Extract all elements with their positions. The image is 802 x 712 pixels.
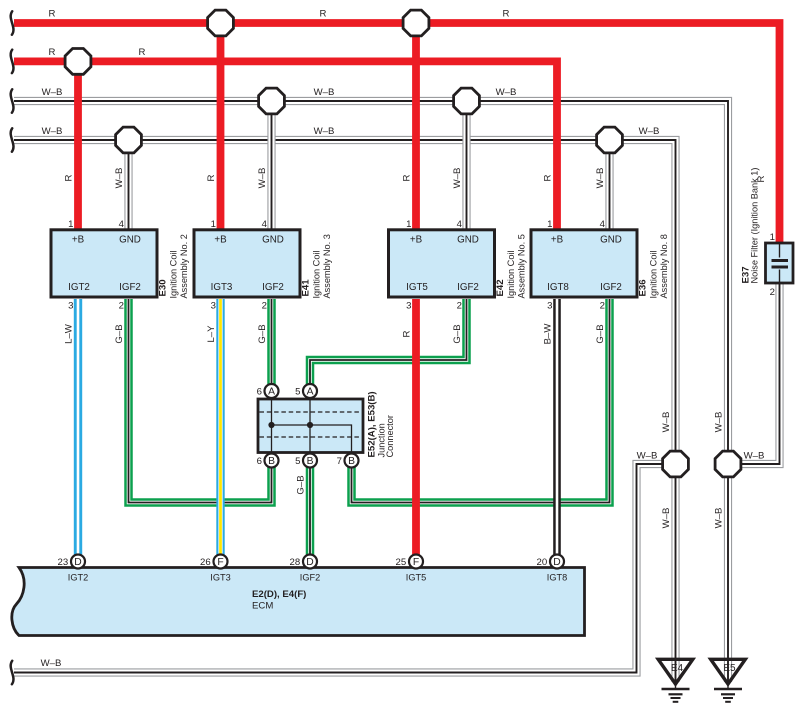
svg-text:IGF2: IGF2 (600, 282, 622, 293)
svg-text:W–B: W–B (637, 451, 658, 462)
svg-text:Assembly No. 2: Assembly No. 2 (179, 234, 189, 298)
svg-text:3: 3 (406, 301, 411, 312)
svg-text:E41: E41 (301, 279, 312, 297)
svg-text:Assembly No. 8: Assembly No. 8 (659, 234, 669, 298)
svg-text:1: 1 (770, 232, 775, 243)
svg-text:E2(D), E4(F): E2(D), E4(F) (252, 589, 306, 600)
svg-text:R: R (206, 174, 217, 181)
svg-text:GND: GND (262, 235, 284, 246)
svg-text:R: R (402, 174, 413, 181)
svg-text:2: 2 (770, 287, 775, 298)
svg-text:R: R (64, 174, 75, 181)
svg-text:W–B: W–B (714, 412, 725, 433)
svg-text:F: F (217, 557, 223, 568)
svg-text:W–B: W–B (714, 508, 725, 529)
svg-text:IGT2: IGT2 (68, 282, 90, 293)
svg-text:Assembly No. 3: Assembly No. 3 (322, 234, 332, 298)
svg-text:L–Y: L–Y (206, 325, 217, 343)
svg-text:B–W: B–W (543, 323, 554, 345)
svg-text:Ignition Coil: Ignition Coil (506, 250, 516, 298)
svg-text:W–B: W–B (42, 126, 63, 137)
svg-text:W–B: W–B (661, 508, 672, 529)
svg-text:2: 2 (262, 301, 267, 312)
svg-text:R: R (49, 9, 56, 20)
svg-text:A: A (307, 387, 314, 398)
svg-text:GND: GND (600, 235, 622, 246)
svg-text:B: B (307, 456, 314, 467)
svg-text:2: 2 (600, 301, 605, 312)
svg-text:E30: E30 (158, 279, 169, 296)
svg-text:IGT8: IGT8 (547, 573, 567, 583)
svg-text:+B: +B (72, 235, 85, 246)
svg-text:W–B: W–B (314, 87, 335, 98)
svg-text:B: B (348, 456, 355, 467)
svg-text:2: 2 (457, 301, 462, 312)
svg-text:GND: GND (457, 235, 479, 246)
svg-text:F: F (413, 557, 419, 568)
svg-text:IGF2: IGF2 (457, 282, 479, 293)
svg-text:W–B: W–B (452, 168, 463, 189)
svg-text:IGF2: IGF2 (300, 573, 320, 583)
svg-text:Assembly No. 5: Assembly No. 5 (516, 234, 526, 298)
svg-text:6: 6 (257, 456, 262, 467)
svg-text:W–B: W–B (41, 658, 62, 669)
svg-text:E5: E5 (723, 663, 736, 674)
svg-text:ECM: ECM (252, 601, 273, 612)
svg-text:W–B: W–B (744, 451, 765, 462)
svg-text:IGT2: IGT2 (68, 573, 88, 583)
svg-text:1: 1 (547, 219, 552, 230)
svg-text:G–B: G–B (114, 324, 125, 343)
svg-text:6: 6 (257, 386, 262, 397)
svg-text:Ignition Coil: Ignition Coil (648, 250, 658, 298)
svg-text:W–B: W–B (661, 412, 672, 433)
svg-text:R: R (139, 47, 146, 58)
svg-text:IGT3: IGT3 (210, 573, 230, 583)
svg-text:26: 26 (200, 557, 211, 568)
svg-text:1: 1 (211, 219, 216, 230)
svg-text:GND: GND (119, 235, 141, 246)
svg-text:G–B: G–B (296, 475, 307, 494)
svg-text:IGT5: IGT5 (406, 573, 426, 583)
svg-text:W–B: W–B (314, 126, 335, 137)
svg-text:D: D (553, 557, 560, 568)
svg-text:E36: E36 (638, 279, 649, 296)
svg-text:IGT5: IGT5 (406, 282, 428, 293)
svg-text:+B: +B (214, 235, 227, 246)
svg-text:1: 1 (68, 219, 73, 230)
svg-text:23: 23 (58, 557, 69, 568)
svg-text:IGF2: IGF2 (262, 282, 284, 293)
svg-text:IGT8: IGT8 (547, 282, 569, 293)
svg-text:Ignition Coil: Ignition Coil (311, 250, 321, 298)
svg-text:25: 25 (396, 557, 407, 568)
svg-text:A: A (268, 387, 275, 398)
svg-text:Connector: Connector (385, 415, 395, 457)
svg-text:4: 4 (119, 219, 125, 230)
svg-text:5: 5 (295, 456, 300, 467)
svg-text:20: 20 (537, 557, 548, 568)
svg-text:4: 4 (457, 219, 463, 230)
svg-text:E4: E4 (671, 663, 684, 674)
svg-text:5: 5 (295, 386, 300, 397)
svg-text:Ignition Coil: Ignition Coil (168, 250, 178, 298)
svg-text:W–B: W–B (639, 126, 660, 137)
svg-text:G–B: G–B (595, 324, 606, 343)
svg-text:W–B: W–B (114, 168, 125, 189)
svg-text:Noise Filter (Ignition Bank 1): Noise Filter (Ignition Bank 1) (750, 168, 760, 284)
svg-text:G–B: G–B (452, 324, 463, 343)
svg-text:W–B: W–B (257, 168, 268, 189)
svg-text:3: 3 (547, 301, 552, 312)
svg-text:IGT3: IGT3 (211, 282, 233, 293)
svg-text:R: R (503, 9, 510, 20)
svg-text:R: R (543, 174, 554, 181)
svg-text:W–B: W–B (42, 87, 63, 98)
svg-text:2: 2 (119, 301, 124, 312)
svg-text:7: 7 (337, 456, 342, 467)
svg-text:3: 3 (68, 301, 73, 312)
svg-text:W–B: W–B (496, 87, 517, 98)
svg-text:R: R (49, 47, 56, 58)
svg-text:E42: E42 (495, 279, 506, 296)
svg-text:4: 4 (600, 219, 606, 230)
svg-text:W–B: W–B (595, 168, 606, 189)
svg-text:R: R (402, 330, 413, 337)
svg-text:+B: +B (410, 235, 423, 246)
svg-text:D: D (74, 557, 81, 568)
svg-text:4: 4 (262, 219, 268, 230)
svg-text:+B: +B (551, 235, 564, 246)
svg-text:28: 28 (290, 557, 301, 568)
svg-text:R: R (320, 9, 327, 20)
svg-text:G–B: G–B (257, 324, 268, 343)
svg-text:3: 3 (211, 301, 216, 312)
svg-text:L–W: L–W (64, 323, 75, 344)
svg-text:IGF2: IGF2 (119, 282, 141, 293)
svg-text:B: B (268, 456, 275, 467)
svg-text:D: D (306, 557, 313, 568)
svg-text:1: 1 (406, 219, 411, 230)
